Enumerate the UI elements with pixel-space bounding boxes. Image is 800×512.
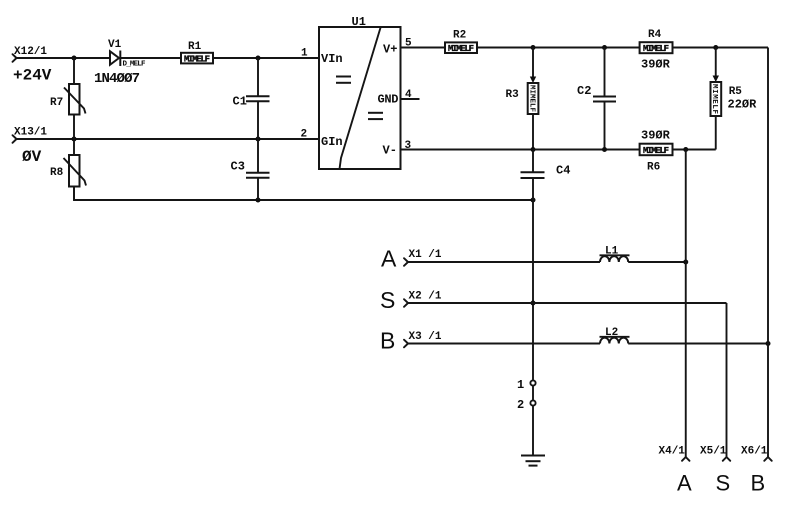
wire S row bbox=[408, 302, 727, 304]
node junction 0V/R7R8 bbox=[72, 137, 77, 142]
svg-text:X3 /1: X3 /1 bbox=[409, 331, 442, 343]
wire V+ rail pin5 to R2 bbox=[401, 47, 446, 49]
varistor R8 bbox=[50, 139, 86, 200]
svg-text:MIMELF: MIMELF bbox=[527, 85, 535, 112]
svg-text:R1: R1 bbox=[188, 41, 202, 53]
node junction V-/C2 bbox=[602, 147, 607, 152]
wire GND stub pin4 bbox=[401, 98, 420, 100]
svg-text:2: 2 bbox=[301, 129, 308, 141]
wire R8 bottom rail bbox=[74, 187, 533, 201]
node junction 0V/C1C3 bbox=[256, 137, 261, 142]
node junction V+/R5 bbox=[713, 45, 718, 50]
connector pin 2 bbox=[517, 398, 536, 412]
terminal X6/1 bbox=[741, 446, 772, 496]
resistor R6 390R bbox=[640, 129, 673, 174]
svg-text:C3: C3 bbox=[231, 160, 245, 174]
capacitor C2 bbox=[577, 48, 616, 150]
wire 0V rail bbox=[17, 138, 320, 140]
resistor R3 bbox=[506, 48, 539, 150]
resistor R5 220R bbox=[710, 48, 757, 150]
wire X6 column bbox=[767, 48, 769, 458]
wire X4 column bbox=[685, 150, 687, 458]
svg-text:+24V: +24V bbox=[13, 67, 52, 85]
wire B row left bbox=[408, 343, 600, 345]
svg-text:C1: C1 bbox=[233, 95, 247, 109]
svg-text:A: A bbox=[381, 246, 397, 272]
resistor R1 bbox=[181, 41, 213, 64]
svg-text:S: S bbox=[716, 470, 731, 495]
terminal X12/1 bbox=[13, 46, 52, 85]
capacitor C3 bbox=[231, 139, 270, 200]
wire +24V rail bbox=[17, 57, 111, 59]
node junction A/X4 column bbox=[683, 260, 688, 265]
node junction V-/X4 column bbox=[683, 147, 688, 152]
svg-text:R2: R2 bbox=[453, 29, 466, 41]
resistor R4 390R bbox=[640, 29, 673, 71]
svg-text:U1: U1 bbox=[352, 15, 366, 29]
terminal X13/1 bbox=[13, 127, 48, 167]
capacitor C1 bbox=[233, 58, 270, 139]
svg-text:X12/1: X12/1 bbox=[14, 46, 47, 58]
node junction +24V/R7 bbox=[72, 56, 77, 61]
ground bbox=[521, 456, 545, 466]
svg-text:GIn: GIn bbox=[321, 135, 343, 149]
node junction bottom rail / C4 bbox=[531, 198, 536, 203]
svg-text:MIMELF: MIMELF bbox=[643, 146, 669, 156]
resistor R2 bbox=[445, 29, 477, 54]
svg-text:B: B bbox=[380, 328, 395, 354]
node junction B/X6 column bbox=[766, 341, 771, 346]
svg-text:39ØR: 39ØR bbox=[641, 57, 671, 71]
svg-text:C2: C2 bbox=[577, 84, 591, 98]
terminal X1/1 row A bbox=[381, 246, 442, 272]
terminal X3/1 row B bbox=[380, 328, 442, 354]
node junction V+/C2 bbox=[602, 45, 607, 50]
svg-text:VIn: VIn bbox=[321, 52, 343, 66]
wire V- rail pin3 to R6 bbox=[401, 149, 640, 151]
node junction V+/R3 bbox=[531, 45, 536, 50]
wire R1 to U1 pin1 bbox=[213, 57, 319, 59]
wire pin2 to ground bbox=[532, 406, 534, 455]
svg-text:MIMELF: MIMELF bbox=[710, 84, 718, 114]
wire diode to R1 bbox=[121, 57, 182, 59]
wire between pins bbox=[532, 386, 534, 401]
svg-text:2: 2 bbox=[517, 398, 524, 412]
svg-text:R7: R7 bbox=[50, 97, 63, 109]
svg-text:R6: R6 bbox=[647, 161, 660, 173]
svg-text:39ØR: 39ØR bbox=[641, 129, 671, 143]
svg-text:C4: C4 bbox=[556, 164, 570, 178]
svg-text:MIMELF: MIMELF bbox=[643, 44, 669, 54]
svg-text:X6/1: X6/1 bbox=[741, 446, 768, 458]
wire central column to connector bbox=[532, 200, 534, 380]
wire R6 right to R5 bottom bbox=[671, 149, 716, 151]
svg-text:X4/1: X4/1 bbox=[659, 446, 686, 458]
terminal X4/1 bbox=[659, 446, 693, 496]
svg-text:R8: R8 bbox=[50, 167, 64, 179]
svg-text:MIMELF: MIMELF bbox=[184, 54, 210, 64]
svg-text:1: 1 bbox=[517, 378, 524, 392]
terminal X5/1 bbox=[700, 446, 730, 496]
svg-text:GND: GND bbox=[378, 93, 399, 107]
svg-text:B: B bbox=[751, 470, 766, 495]
svg-text:ØV: ØV bbox=[22, 148, 42, 166]
svg-text:X1 /1: X1 /1 bbox=[409, 249, 442, 261]
svg-text:V1: V1 bbox=[108, 39, 122, 51]
capacitor C4 bbox=[521, 150, 571, 201]
svg-text:R4: R4 bbox=[648, 29, 662, 41]
node junction +24V/C1 bbox=[256, 56, 261, 61]
svg-text:S: S bbox=[380, 287, 395, 313]
wire X5 column bbox=[726, 303, 728, 457]
svg-text:X2 /1: X2 /1 bbox=[409, 291, 442, 303]
svg-text:1N4ØØ7: 1N4ØØ7 bbox=[94, 71, 140, 87]
terminal X2/1 row S bbox=[380, 287, 442, 313]
svg-text:R3: R3 bbox=[506, 89, 520, 101]
inductor L2 bbox=[600, 327, 630, 344]
dc-dc converter U1 bbox=[301, 15, 420, 169]
wire B row right bbox=[628, 343, 768, 345]
node junction S row bbox=[531, 301, 536, 306]
svg-text:D_MELF: D_MELF bbox=[123, 61, 146, 69]
inductor L1 bbox=[600, 245, 630, 262]
svg-text:MIMELF: MIMELF bbox=[448, 44, 474, 54]
svg-text:A: A bbox=[677, 470, 692, 495]
wire A row right bbox=[628, 261, 686, 263]
svg-text:V-: V- bbox=[383, 144, 397, 158]
node junction bottom rail / C3 bbox=[256, 198, 261, 203]
wire R2 to right corner bbox=[478, 47, 769, 49]
svg-text:22ØR: 22ØR bbox=[728, 98, 758, 112]
svg-text:R5: R5 bbox=[729, 86, 743, 98]
diode V1 1N4007 bbox=[94, 39, 146, 87]
connector pin 1 bbox=[517, 378, 536, 392]
svg-text:1: 1 bbox=[301, 48, 308, 60]
svg-text:X5/1: X5/1 bbox=[700, 446, 727, 458]
svg-text:X13/1: X13/1 bbox=[14, 127, 47, 139]
node junction V-/R3C4 bbox=[531, 147, 536, 152]
varistor R7 bbox=[50, 58, 86, 139]
svg-text:V+: V+ bbox=[383, 43, 397, 57]
wire A row left bbox=[408, 261, 600, 263]
